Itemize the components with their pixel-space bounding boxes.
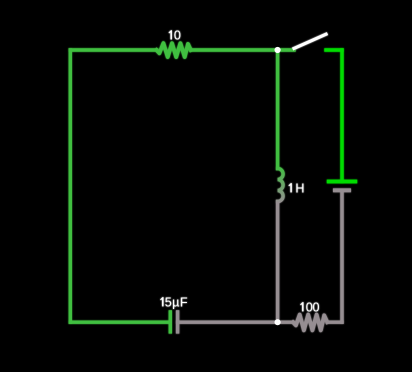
label 1H (digit 1 drawn as path) <box>288 183 291 192</box>
label 15µF (digit 1 drawn as path) <box>160 297 163 306</box>
label 100 (digit 1 drawn as path) <box>300 302 303 311</box>
wire resistor 100 to bottom junction <box>278 321 293 324</box>
wire switch right lead to top-right corner <box>326 48 342 51</box>
wire bottom-right corner to resistor 100 <box>327 321 342 324</box>
capacitor C1 left plate <box>169 310 172 333</box>
wire bottom junction to capacitor right plate <box>178 321 278 324</box>
label 10 (digit 1 drawn as path) <box>169 30 172 39</box>
node bottom junction dot <box>275 319 281 325</box>
node top junction dot <box>275 47 281 53</box>
svg-text:H: H <box>295 181 304 195</box>
resistor 10 zigzag <box>157 43 191 57</box>
resistor 100 zigzag <box>293 315 327 331</box>
svg-text:0: 0 <box>174 29 181 43</box>
wire resistor to top junction <box>191 48 294 51</box>
wire top junction down to inductor <box>276 50 279 169</box>
battery V1 long positive plate <box>327 180 357 184</box>
wire bottom junction up to inductor bottom <box>276 202 279 323</box>
battery V1 short negative plate <box>333 188 351 192</box>
switch S1 blade (open) <box>294 34 326 48</box>
svg-text:5µF: 5µF <box>165 295 188 309</box>
inductor L1 coil 1H <box>278 169 284 202</box>
capacitor C1 right plate <box>176 310 179 333</box>
wire top-left to resistor R1 left lead <box>70 48 156 51</box>
wire left vertical side <box>69 50 72 322</box>
wire capacitor left plate to bottom-left corner <box>70 321 170 324</box>
svg-text:00: 00 <box>306 300 320 314</box>
wire right vertical down to battery <box>340 50 343 182</box>
wire battery negative down right side <box>340 190 343 322</box>
